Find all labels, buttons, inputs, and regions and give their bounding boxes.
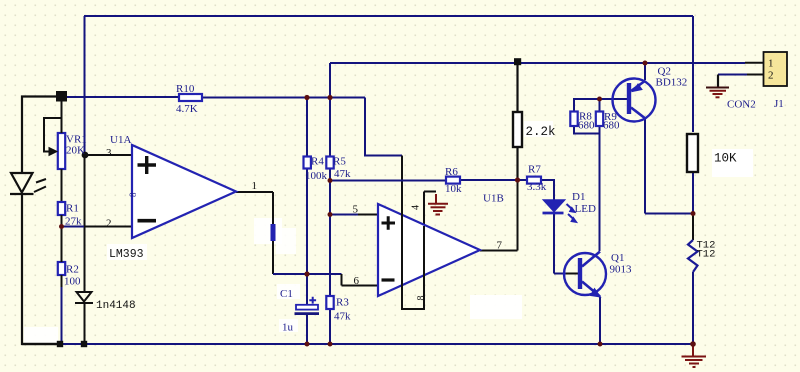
wire R1/R2 node to U1A pin2 [61,226,84,228]
wire pin6 corner down [341,274,343,286]
svg-text:8: 8 [416,296,427,301]
wire Q2 collector to 10K column [645,213,693,215]
svg-text:U1A: U1A [110,134,131,146]
resistor R2 [58,227,65,345]
svg-text:BD132: BD132 [656,77,688,89]
white patch near output column [254,218,296,254]
junction square ground rail diode [81,341,87,347]
resistor R9 [596,112,603,127]
svg-text:20K: 20K [66,145,85,157]
svg-text:10k: 10k [445,183,462,195]
photodiode (light sensor) [10,173,46,194]
resistor R10 [179,94,202,101]
svg-text:CON2: CON2 [727,99,756,111]
junction dot R6 tap [328,178,333,183]
white patch under U1B [470,295,522,319]
transistor Q2 BD132 (PNP) [613,79,656,122]
wire Q1 emitter to ground rail [599,297,601,344]
wire snake vertical down and bottom link [402,156,424,310]
op-amp U1B [378,204,480,296]
white patch 10K label [712,149,753,177]
junction dot pin3 node [82,152,89,159]
resistor R7 [527,177,541,184]
svg-text:10K: 10K [714,152,737,166]
white correction patches [24,121,753,343]
wire J1 pin2 ground stem [717,75,719,88]
power ground at U1B pin4 [428,194,448,215]
junction dot pin5 tap [328,212,333,217]
pin U1B pin7 stub [480,250,518,252]
svg-text:LED: LED [575,203,596,215]
junction dot Q1 emitter ground [598,342,603,347]
capacitor C1 [295,297,320,314]
wire R9 bottom to Q1 collector [599,126,601,251]
TEXTS-GROUP [64,58,784,334]
svg-text:4.7K: 4.7K [176,103,198,115]
svg-text:6: 6 [354,275,360,287]
wire thick blue mark on output column [271,224,276,241]
wire Q2 collector down [644,119,646,214]
wire R10 right to V+ column [202,97,365,99]
svg-text:7: 7 [497,240,503,252]
white patch 1u label [279,319,298,332]
svg-text:R1: R1 [66,203,79,215]
wire snake to U1B pin8 [365,98,402,156]
junction square at VR1 top node [56,91,67,102]
wire top rail from Q2 collector net [84,15,693,17]
wire R9 top stub [599,99,601,112]
power ground bottom right [682,344,707,367]
svg-text:J1: J1 [774,98,784,110]
wire rail2 corner down to R5 top [329,63,331,157]
svg-text:5: 5 [353,204,359,216]
svg-text:T12: T12 [697,249,716,261]
resistor R6 [446,177,460,184]
svg-text:680: 680 [603,120,620,132]
wire node square to R10 left [67,96,179,98]
wire R5 node to U1B pin5 [330,214,358,216]
svg-text:R4: R4 [311,156,324,168]
pin U1A pin2 stub [84,226,132,228]
junction square at 2.2k top [514,58,521,65]
wire R8 top corner to Q2 base [574,99,627,112]
wire R5 node to R6 left [330,180,446,182]
pin J1 pin2 stub [747,74,764,76]
wire R3 bottom to ground rail [329,309,331,344]
svg-text:2.2k: 2.2k [526,125,556,139]
junction square ground rail left [57,341,63,347]
wire snake overlay inside U1B [401,200,403,309]
white patch LM393 label [107,244,147,260]
wire R4 bottom to C1 node [306,168,308,274]
svg-text:47k: 47k [334,311,351,323]
svg-text:1u: 1u [282,322,294,334]
power ground at J1 pin2 [706,88,729,98]
wire 10K bottom to T12 node [692,172,694,214]
wire pin3 node down to 1n4148 anode [84,155,86,291]
svg-text:2: 2 [106,218,112,230]
wire U1A output pin 1 [236,191,273,193]
LED D1 [543,200,578,223]
pin U1A pin3 stub [85,154,132,156]
junction dot ground symbol node [690,341,696,347]
op-amp U1A [132,145,236,238]
wire ground rail [57,343,693,345]
svg-text:100k: 100k [305,170,328,182]
svg-text:27k: 27k [65,216,82,228]
junction dot R5 V+ [327,95,332,100]
resistor R3 [326,296,333,309]
svg-text:R2: R2 [66,264,79,276]
junction dot R3 ground [328,342,333,347]
svg-text:R3: R3 [336,297,349,309]
pin U1B pin8 stub overlay [423,226,425,309]
junction dot R9 base node [597,97,602,102]
wire LED cathode down [553,213,555,274]
pin J1 pin1 stub [745,62,764,64]
potentiometer VR1 [44,101,65,202]
wire R8 bottom join [574,126,600,134]
wire R6 right to node [460,179,527,181]
svg-text:C1: C1 [280,288,293,300]
wire LED to Q1 base [554,273,566,275]
wire J1 pin2 to ground [718,74,747,76]
wire top rail left drop / feedback vertical to pin3 [84,16,86,155]
wire R4 top to V+ rail [306,98,308,158]
svg-text:U1B: U1B [483,193,504,205]
resistor R5 [326,157,333,169]
resistor 2.2k [513,112,522,147]
wire pin4 to ground link [424,191,436,193]
wire 2.2k top black branch [516,63,518,112]
wire top rail right drop to 10K [692,16,694,132]
wire C1 top lead [306,274,308,305]
svg-text:2: 2 [768,70,774,82]
transistor Q1 9013 (NPN) [564,252,606,298]
pin Q1 base stub [566,273,578,275]
pin U1B pin5 stub [358,214,378,216]
wire R5 bottom through pin5 node to R3 top [329,168,331,296]
wire photodiode branch top [22,97,66,173]
svg-text:R6: R6 [445,166,458,178]
junction dot R4 top [304,95,309,100]
wire T12 top lead [692,214,694,241]
svg-text:1n4148: 1n4148 [96,300,136,312]
wire R7 right to LED top [541,180,554,200]
pin U1B pin4 stub [423,192,425,227]
junction dot Q2 emitter rail [643,61,648,66]
svg-text:3: 3 [106,147,112,159]
svg-text:Q1: Q1 [611,252,624,264]
white patch corner bottom left [24,327,58,343]
junction dot C1 ground [305,342,310,347]
wire pin7 up to R7 node [517,180,519,251]
svg-text:R10: R10 [176,83,195,95]
wire ground rail black left [22,343,57,345]
wire photodiode branch bottom [22,194,57,344]
svg-text:LM393: LM393 [109,248,144,261]
white patch C1 label [277,284,300,299]
thermistor T12 zigzag [688,240,698,272]
svg-text:100: 100 [64,276,81,288]
svg-text:R7: R7 [528,164,541,176]
svg-text:1: 1 [252,180,258,192]
junction dot collector T12 node [691,211,696,216]
svg-text:4: 4 [411,205,422,210]
resistor R1 [58,202,65,227]
wire output node to pin6 corner [273,273,342,275]
resistor R8 [570,112,577,127]
wire T12 bottom lead [692,272,694,344]
svg-text:3.3k: 3.3k [527,181,547,193]
svg-text:9013: 9013 [610,264,633,276]
junction dot C1 output node [304,271,309,276]
diode 1n4148 [75,292,93,303]
wire Q2 emitter up to rail2 [644,63,646,80]
pin U1B pin6 stub [342,285,379,287]
svg-text:1: 1 [768,58,774,70]
connector J1 CON2 [764,52,788,86]
svg-text:680: 680 [578,120,595,132]
junction dot R1 R2 node [59,224,64,229]
wire 1n4148 cathode to ground rail [84,303,86,344]
resistor 10K [687,134,698,172]
wire output down column [272,192,274,274]
junction dot R7 node [515,177,520,182]
svg-text:R5: R5 [333,156,346,168]
wire 2.2k bottom black branch [516,147,518,180]
wire supply rail2 to J1 pin 1 [330,62,745,64]
resistor R4 [304,157,311,169]
white patch 2.2k label [524,121,553,137]
wire C1 bottom lead to ground rail [306,313,308,344]
svg-text:D1: D1 [572,191,585,203]
svg-text:8: 8 [128,192,138,197]
svg-text:47k: 47k [334,168,351,180]
